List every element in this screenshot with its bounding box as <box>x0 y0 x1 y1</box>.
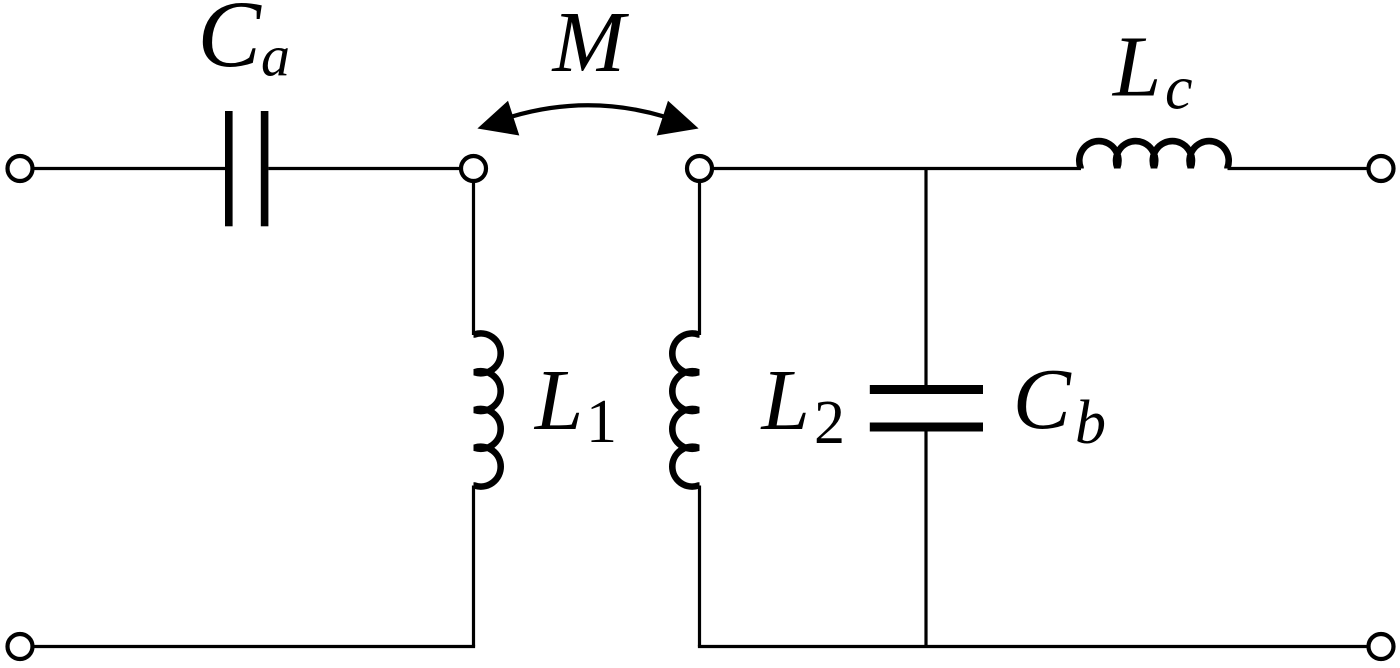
terminal top-right <box>1369 156 1394 181</box>
svg-text:L: L <box>1111 17 1161 114</box>
inductor L1 <box>474 333 501 486</box>
terminal bottom-left <box>8 634 33 659</box>
node B (secondary top) <box>687 156 712 181</box>
wire node A down to L1 <box>472 181 475 335</box>
label Ca <box>198 0 291 89</box>
label Lc <box>1111 17 1193 122</box>
bottom-right rail <box>698 645 1368 648</box>
inductor Lc <box>1079 141 1228 168</box>
node A (primary top) <box>461 156 486 181</box>
svg-text:L: L <box>760 351 810 448</box>
label L1 <box>533 351 617 456</box>
wire junction to Cb top <box>924 169 927 386</box>
svg-text:2: 2 <box>814 389 845 457</box>
capacitor Cb <box>870 385 983 432</box>
svg-text:a: a <box>261 24 290 89</box>
svg-text:c: c <box>1165 55 1193 123</box>
terminal bottom-right <box>1369 634 1394 659</box>
wire input to Ca <box>33 167 225 170</box>
label Cb <box>1013 350 1106 457</box>
wire node B down to L2 <box>698 181 701 335</box>
svg-text:1: 1 <box>586 388 617 456</box>
wire Lc to output terminal <box>1228 167 1369 170</box>
mutual coupling arrow M: arc <box>512 105 664 116</box>
capacitor Ca <box>225 111 268 226</box>
wire Ca to node A <box>268 167 461 170</box>
arrowhead left <box>477 101 519 136</box>
bottom-left rail <box>33 645 475 648</box>
svg-text:C: C <box>1013 350 1072 447</box>
terminal top-left <box>8 156 33 181</box>
arrowhead right <box>657 101 699 136</box>
wire Cb bottom to rail <box>924 432 927 647</box>
wire L1 to bottom rail <box>472 486 475 647</box>
label L2 <box>760 351 846 457</box>
wire node B to Lc <box>712 167 1081 170</box>
wire L2 to bottom rail <box>698 486 701 647</box>
svg-text:b: b <box>1075 389 1106 457</box>
svg-text:M: M <box>551 0 630 90</box>
inductor L2 <box>672 333 699 486</box>
svg-text:C: C <box>198 0 263 87</box>
svg-text:L: L <box>533 351 583 448</box>
